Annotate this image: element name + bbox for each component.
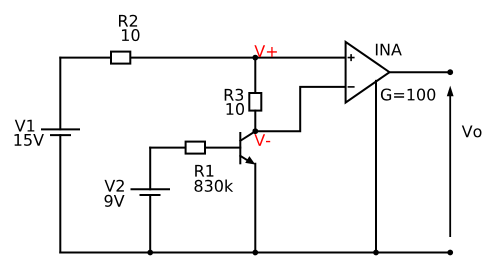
- wire emitter down: [254, 164, 256, 253]
- wire V2 bottom: [149, 195, 151, 253]
- op-amp U1 triangle: [346, 42, 390, 103]
- node V- dot: [252, 128, 258, 134]
- label 10: [227, 103, 245, 115]
- node bottom emitter dot: [252, 250, 258, 256]
- wire R1 to transistor base: [205, 147, 240, 149]
- label 10: [122, 29, 140, 41]
- wire op-amp negative supply: [375, 81, 377, 253]
- transistor Q1 emitter diagonal: [240, 156, 250, 162]
- wire left rail upper: [59, 58, 61, 130]
- battery V1 short plate: [51, 134, 70, 136]
- wire top rail: [60, 57, 345, 59]
- resistor R2: [111, 52, 130, 64]
- battery V1 long plate: [42, 128, 79, 130]
- wire V- node to op-amp minus input: [255, 87, 345, 131]
- battery V2 short plate: [141, 194, 160, 196]
- Vo annotation arrowhead: [447, 86, 454, 97]
- wire left rail lower: [59, 135, 61, 252]
- label V-: [254, 134, 270, 146]
- label R2: [119, 15, 137, 27]
- battery V2 long plate: [132, 188, 170, 190]
- resistor R1: [186, 142, 205, 154]
- node bottom V2 dot: [147, 250, 153, 256]
- wire bottom rail: [60, 252, 450, 254]
- transistor Q1 emitter arrowhead: [245, 156, 255, 165]
- label R1: [195, 165, 213, 177]
- node V+ dot: [252, 55, 258, 61]
- op-amp plus input sign: [348, 54, 355, 61]
- wire V+ node to R3: [254, 58, 256, 93]
- label V+: [254, 45, 277, 57]
- node bottom supply dot: [373, 250, 379, 256]
- Vo annotation arrow line: [449, 96, 451, 238]
- label V2: [105, 180, 124, 192]
- label Vo: [462, 126, 482, 138]
- wire R3 to V- node: [254, 111, 256, 132]
- label INA: [376, 44, 402, 56]
- node bottom right dot: [447, 250, 453, 256]
- wire V2 top: [149, 148, 151, 190]
- label 9V: [105, 195, 125, 207]
- label R3: [225, 89, 243, 101]
- transistor Q1 base bar: [239, 133, 241, 163]
- label 830k: [195, 180, 234, 192]
- label 15V: [15, 134, 44, 146]
- wire base left segment: [150, 147, 185, 149]
- op-amp minus input sign: [348, 86, 355, 88]
- node output dot: [447, 69, 453, 75]
- label V1: [15, 120, 35, 132]
- transistor Q1 collector diagonal: [240, 131, 255, 141]
- wire op-amp output: [390, 71, 451, 73]
- resistor R3: [249, 93, 261, 111]
- label G=100: [381, 89, 435, 101]
